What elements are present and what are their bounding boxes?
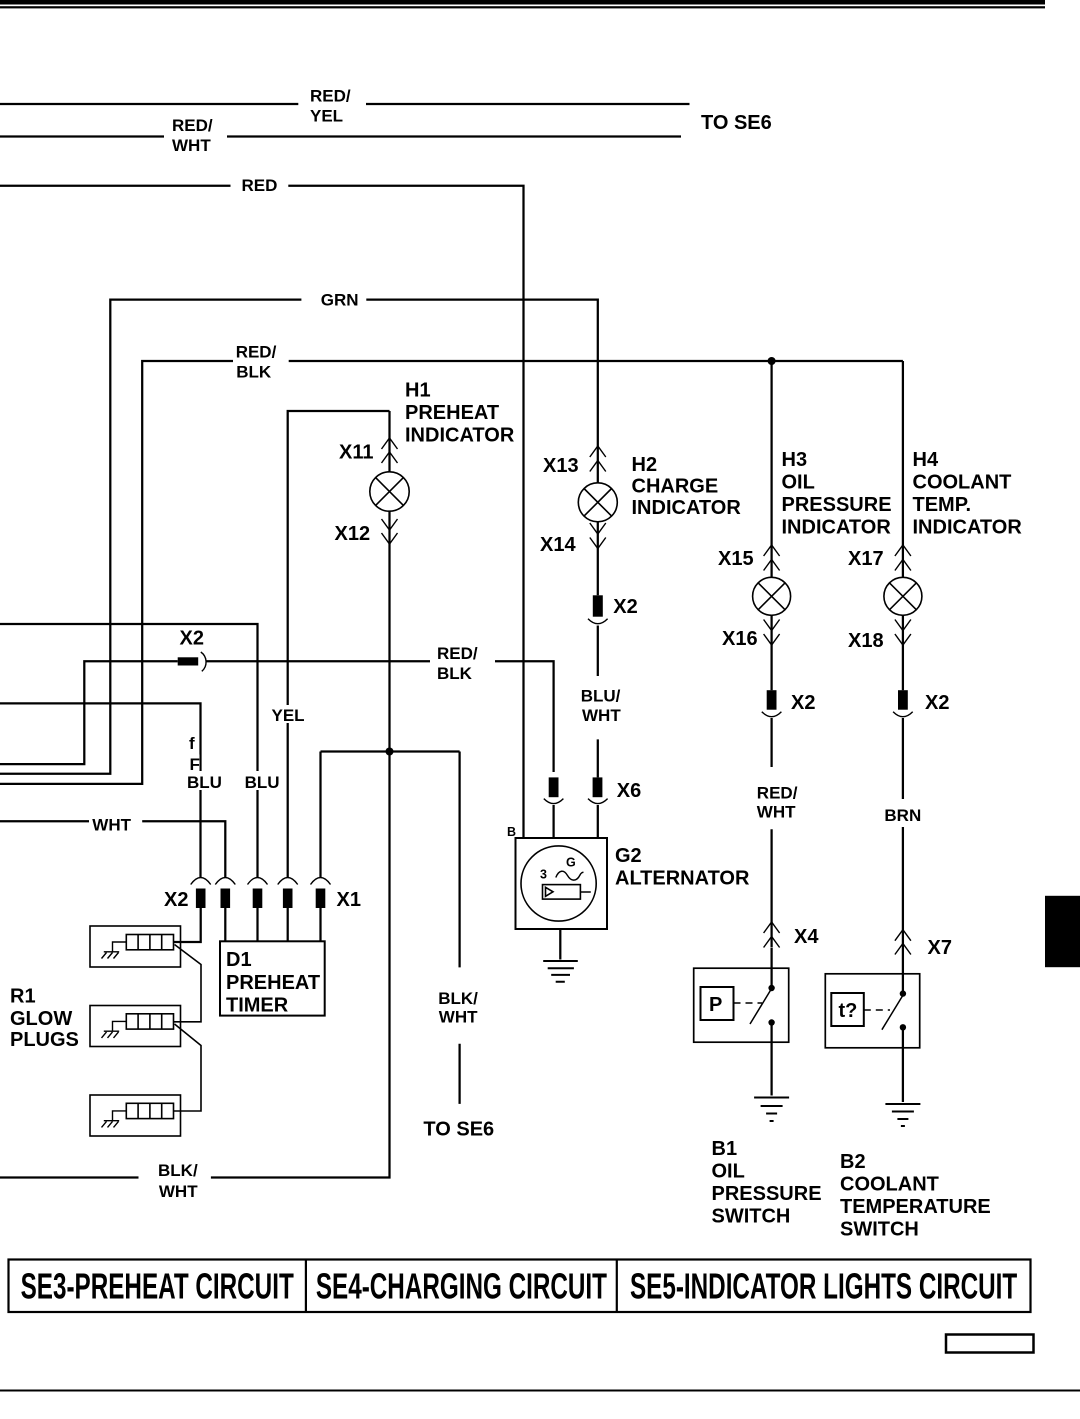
- lamp H4 coolant temp indicator: [884, 577, 922, 615]
- wire RED/WHT (to SE6): [0, 135, 681, 137]
- glow plug R1 box 2: [90, 1006, 181, 1047]
- glow plug R1 box 1: [90, 926, 181, 967]
- svg-text:PRESSURE: PRESSURE: [782, 494, 892, 516]
- alternator sine symbol: [556, 871, 584, 880]
- svg-text:SE5-INDICATOR LIGHTS CIRCUIT: SE5-INDICATOR LIGHTS CIRCUIT: [630, 1266, 1017, 1307]
- svg-text:SE4-CHARGING CIRCUIT: SE4-CHARGING CIRCUIT: [316, 1266, 607, 1307]
- wire RED (to alternator B terminal): [0, 186, 524, 838]
- glow plug 3 element: [126, 1103, 173, 1118]
- label X4: [794, 926, 819, 948]
- label wire BLK/WHT (SE6 drop): [438, 989, 478, 1026]
- glow plug 2 ground: [102, 1021, 127, 1038]
- wire RED/BLK to alternator: [206, 661, 554, 772]
- junction dot RED/BLK to H3: [768, 357, 776, 365]
- page top border thick rule: [0, 0, 1045, 5]
- svg-text:WHT: WHT: [439, 1007, 478, 1026]
- svg-text:BLK/: BLK/: [438, 989, 478, 1008]
- label X2 (H3 connector): [791, 692, 815, 714]
- label X2 (pin row): [164, 889, 188, 911]
- wire BLU/WHT to X6: [597, 626, 599, 778]
- connector X13 chevrons: [590, 446, 606, 472]
- label D1 PREHEAT TIMER: [226, 949, 320, 1017]
- svg-text:TO SE6: TO SE6: [701, 112, 772, 134]
- wire WHT to pin2: [0, 821, 225, 877]
- wire RED/YEL (to SE6): [0, 103, 690, 105]
- svg-text:BLK: BLK: [236, 363, 272, 382]
- svg-text:X2: X2: [180, 628, 204, 650]
- switch B1 upper contact: [768, 985, 774, 991]
- connector X2 pin (H2): [593, 595, 603, 616]
- connector pin row pins X2/X1: [196, 889, 325, 909]
- svg-text:X2: X2: [164, 889, 188, 911]
- svg-text:WHT: WHT: [172, 136, 211, 155]
- alternator rectifier box: [543, 885, 591, 900]
- connector pin row arcs: [191, 878, 331, 885]
- label table SE5-INDICATOR LIGHTS CIRCUIT: [630, 1266, 1017, 1307]
- svg-text:CHARGE: CHARGE: [632, 476, 719, 498]
- svg-text:ALTERNATOR: ALTERNATOR: [615, 868, 750, 890]
- wire RED/BLK (left edge to H3/H4 indicators): [0, 361, 903, 784]
- label X7: [928, 937, 952, 959]
- wire H1 top loop (lamp to YEL pin): [288, 411, 390, 877]
- connector X2 pin (H3): [767, 690, 777, 710]
- alternator G2 circle: [521, 846, 596, 921]
- connector X6 pin (right): [593, 777, 603, 797]
- label X13: [543, 455, 579, 477]
- svg-text:X12: X12: [335, 523, 371, 545]
- lamp H3 oil pressure indicator: [753, 577, 791, 615]
- label B1 OIL PRESSURE SWITCH: [712, 1138, 822, 1228]
- wire X7 into switch B2: [902, 955, 904, 992]
- svg-text:BLU/: BLU/: [581, 687, 621, 706]
- glow plug 1 element: [126, 935, 173, 950]
- wire pin2 to D1: [224, 908, 226, 941]
- svg-text:INDICATOR: INDICATOR: [913, 517, 1023, 539]
- label wire f F BLU (pin1): [183, 734, 222, 792]
- connector X7 chevrons: [895, 930, 911, 955]
- switch B1 P box: [701, 987, 734, 1020]
- svg-text:X17: X17: [848, 548, 884, 570]
- svg-text:X18: X18: [848, 630, 884, 652]
- svg-text:SWITCH: SWITCH: [840, 1219, 919, 1241]
- label H4 COOLANT TEMP INDICATOR: [913, 449, 1023, 539]
- ground G2: [543, 961, 578, 982]
- svg-text:PLUGS: PLUGS: [10, 1029, 79, 1051]
- label G2 ALTERNATOR: [615, 845, 750, 890]
- svg-text:PRESSURE: PRESSURE: [712, 1183, 822, 1205]
- glow plug 1 ground: [102, 942, 127, 959]
- label wire RED: [242, 176, 278, 195]
- connector X17 chevrons: [895, 545, 911, 571]
- svg-text:t?: t?: [839, 1000, 858, 1022]
- label wire BLK/WHT (bottom left): [158, 1161, 198, 1201]
- svg-text:H1: H1: [405, 380, 431, 402]
- label TO SE6 (bottom): [423, 1118, 494, 1140]
- label switch t: [839, 1000, 858, 1022]
- svg-text:WHT: WHT: [582, 706, 621, 725]
- connector X16 chevrons: [764, 620, 780, 646]
- connector X18 chevrons: [895, 620, 911, 646]
- wire to pin3 (BLU): [0, 624, 258, 877]
- label X17: [848, 548, 884, 570]
- wire BRN to X7: [902, 718, 904, 955]
- svg-text:P: P: [709, 994, 722, 1016]
- svg-text:X14: X14: [540, 534, 576, 556]
- table SE3/SE4/SE5: [9, 1260, 1031, 1313]
- wire H4 feed drop: [902, 361, 904, 577]
- wire junction to X1 pin and SE6 drop: [321, 752, 460, 878]
- svg-text:BLU: BLU: [187, 773, 222, 792]
- svg-text:X1: X1: [337, 889, 361, 911]
- connector X11 chevrons: [382, 438, 398, 463]
- label X14: [540, 534, 576, 556]
- svg-text:X6: X6: [617, 780, 641, 802]
- svg-text:B1: B1: [712, 1138, 738, 1160]
- label wire RED/BLK (center): [437, 644, 478, 683]
- label wire RED/BLK (left): [236, 343, 277, 382]
- svg-text:X7: X7: [928, 937, 952, 959]
- svg-text:BRN: BRN: [884, 806, 921, 825]
- wire H3 feed drop: [770, 361, 772, 577]
- wire battery feed staircase to inline X2: [0, 661, 178, 764]
- svg-text:RED/: RED/: [437, 644, 478, 663]
- svg-text:BLU: BLU: [245, 773, 280, 792]
- connector X6 socket arc (left): [544, 799, 564, 804]
- switch B1 lower contact: [768, 1019, 774, 1025]
- svg-text:G2: G2: [615, 845, 642, 867]
- svg-text:SE3-PREHEAT CIRCUIT: SE3-PREHEAT CIRCUIT: [21, 1266, 294, 1307]
- wire pin4 to D1: [287, 908, 289, 941]
- wire H1 lamp upper lead: [388, 411, 390, 472]
- label B2 COOLANT TEMPERATURE SWITCH: [840, 1151, 991, 1241]
- label X18: [848, 630, 884, 652]
- svg-text:PREHEAT: PREHEAT: [405, 402, 499, 424]
- switch B2 dashed link: [864, 1009, 890, 1011]
- label alternator 3: [540, 868, 547, 882]
- label X1 (pin row): [337, 889, 361, 911]
- svg-text:TEMPERATURE: TEMPERATURE: [840, 1196, 991, 1218]
- svg-text:H3: H3: [782, 449, 808, 471]
- wire BLK/WHT drop to SE6: [458, 752, 460, 1104]
- switch B2 lever: [882, 993, 904, 1030]
- svg-text:YEL: YEL: [310, 107, 343, 126]
- label wire GRN: [321, 291, 359, 310]
- label terminal B: [507, 825, 516, 839]
- svg-text:RED/: RED/: [236, 343, 277, 362]
- svg-text:B: B: [507, 825, 516, 839]
- ground B1: [754, 1098, 789, 1122]
- connector X2 inline pin: [178, 657, 199, 665]
- svg-text:X2: X2: [791, 692, 815, 714]
- svg-text:GRN: GRN: [321, 291, 359, 310]
- svg-text:TEMP.: TEMP.: [913, 494, 972, 516]
- wire X4 into switch B1: [770, 948, 772, 987]
- label table SE3-PREHEAT CIRCUIT: [21, 1266, 294, 1307]
- svg-text:R1: R1: [10, 986, 36, 1008]
- connector X4 chevrons: [764, 922, 780, 948]
- label H3 OIL PRESSURE INDICATOR: [782, 449, 892, 539]
- wire to pin1 (f F BLU): [0, 703, 201, 877]
- switch B1 lever: [750, 987, 773, 1024]
- wire H3 lamp to X2: [770, 615, 772, 690]
- label X2 (H2 connector): [613, 596, 637, 618]
- connector X2 socket arc (H3): [762, 712, 782, 717]
- svg-text:COOLANT: COOLANT: [840, 1174, 939, 1196]
- connector X12 chevrons: [382, 519, 398, 544]
- svg-text:WHT: WHT: [92, 816, 131, 835]
- connector X2 socket arc (H4): [893, 712, 913, 717]
- svg-text:INDICATOR: INDICATOR: [632, 497, 742, 519]
- label wire BRN: [884, 806, 921, 825]
- small empty box bottom right: [946, 1335, 1034, 1353]
- svg-text:TO SE6: TO SE6: [423, 1118, 494, 1140]
- svg-text:OIL: OIL: [712, 1161, 745, 1183]
- coolant temperature switch B2 box: [825, 974, 919, 1048]
- label H2 CHARGE INDICATOR: [632, 454, 742, 519]
- black edge tab: [1045, 896, 1080, 967]
- page top border thin rule: [0, 6, 1045, 8]
- label X16: [722, 628, 758, 650]
- wire alternator to ground: [559, 929, 561, 960]
- label X2 (inline connector): [180, 628, 204, 650]
- wire GRN (left edge to H2 charge indicator): [0, 300, 598, 774]
- svg-text:PREHEAT: PREHEAT: [226, 972, 320, 994]
- wire B1 to ground: [770, 1023, 772, 1096]
- svg-text:WHT: WHT: [757, 802, 796, 821]
- switch B1 dashed link: [734, 1002, 763, 1004]
- wire H4 lamp to X2: [902, 615, 904, 690]
- connector X6 pin (left): [549, 777, 559, 797]
- label R1 GLOW PLUGS: [10, 986, 79, 1052]
- label wire RED/WHT: [172, 116, 213, 155]
- svg-text:f: f: [189, 734, 195, 753]
- svg-text:X15: X15: [718, 548, 754, 570]
- label table SE4-CHARGING CIRCUIT: [316, 1266, 607, 1307]
- switch B2 lower contact: [900, 1024, 906, 1030]
- oil pressure switch B1 box: [694, 968, 789, 1042]
- label wire WHT: [92, 816, 131, 835]
- wire H1 lamp lower lead down to BLK/WHT: [0, 511, 390, 1177]
- connector X2 inline socket arc: [201, 652, 206, 671]
- svg-text:YEL: YEL: [272, 706, 305, 725]
- connector X2 socket arc (H2): [588, 619, 608, 624]
- wire pin1 to glow plug 1: [174, 908, 201, 942]
- label wire BLU (pin3): [241, 771, 280, 792]
- wire B2 to ground: [902, 1027, 904, 1102]
- label wire RED/WHT (B1 feed): [757, 784, 798, 822]
- glow plug R1 box 3: [90, 1095, 181, 1136]
- wire X6 to alternator: [597, 805, 599, 838]
- lamp H1 preheat indicator: [370, 472, 409, 511]
- wire pin3 to D1: [256, 908, 258, 941]
- svg-text:RED/: RED/: [172, 116, 213, 135]
- wire glow chain 1-2: [174, 945, 202, 1022]
- svg-text:H2: H2: [632, 454, 658, 476]
- junction dot H1 return: [386, 748, 394, 756]
- svg-text:X13: X13: [543, 455, 579, 477]
- svg-text:X4: X4: [794, 926, 819, 948]
- label X11: [339, 442, 373, 464]
- label wire BLU/WHT: [581, 687, 622, 725]
- svg-text:INDICATOR: INDICATOR: [782, 517, 892, 539]
- lamp H2 charge indicator: [578, 483, 617, 522]
- svg-text:TIMER: TIMER: [226, 995, 289, 1017]
- svg-text:3: 3: [540, 868, 547, 882]
- svg-text:OIL: OIL: [782, 472, 815, 494]
- svg-text:COOLANT: COOLANT: [913, 472, 1012, 494]
- glow plug 2 element: [126, 1014, 173, 1029]
- svg-text:RED: RED: [242, 176, 278, 195]
- wire left X6 to alternator: [552, 805, 554, 838]
- page bottom rule: [0, 1390, 1080, 1392]
- label TO SE6 (top): [701, 112, 772, 134]
- svg-text:GLOW: GLOW: [10, 1008, 72, 1030]
- label alternator G: [566, 856, 576, 870]
- switch B2 upper contact: [900, 990, 906, 996]
- svg-text:BLK/: BLK/: [158, 1161, 198, 1180]
- wire RED/WHT to X4: [770, 718, 772, 947]
- connector X14 chevrons: [590, 523, 606, 549]
- svg-text:X2: X2: [925, 692, 949, 714]
- svg-text:INDICATOR: INDICATOR: [405, 425, 515, 447]
- preheat timer D1 box: [220, 941, 325, 1015]
- label switch P: [709, 994, 722, 1016]
- svg-text:G: G: [566, 856, 576, 870]
- label wire YEL: [268, 705, 305, 725]
- switch B2 t box: [831, 993, 864, 1026]
- svg-text:X11: X11: [339, 442, 373, 464]
- svg-text:WHT: WHT: [159, 1182, 198, 1201]
- svg-text:H4: H4: [913, 449, 939, 471]
- label connector X6: [617, 780, 641, 802]
- alternator G2 box: [516, 838, 608, 929]
- svg-text:X2: X2: [613, 596, 637, 618]
- label X2 (H4 connector): [925, 692, 949, 714]
- svg-text:B2: B2: [840, 1151, 866, 1173]
- svg-text:X16: X16: [722, 628, 758, 650]
- svg-text:D1: D1: [226, 949, 252, 971]
- glow plug 3 ground: [102, 1111, 127, 1128]
- svg-text:RED/: RED/: [757, 784, 798, 803]
- svg-text:BLK: BLK: [437, 664, 473, 683]
- connector X6 socket arc (right): [588, 799, 608, 804]
- label wire RED/YEL: [310, 87, 351, 126]
- connector X15 chevrons: [764, 545, 780, 571]
- wire pin5 to D1: [319, 908, 321, 941]
- ground B2: [885, 1104, 920, 1126]
- label X12: [335, 523, 371, 545]
- wire H2 lamp lower lead: [597, 522, 599, 596]
- svg-text:RED/: RED/: [310, 87, 351, 106]
- svg-text:SWITCH: SWITCH: [712, 1206, 791, 1228]
- wire glow chain 2-3: [174, 1024, 202, 1111]
- label X15: [718, 548, 754, 570]
- connector X2 pin (H4): [898, 690, 908, 710]
- label H1 PREHEAT INDICATOR: [405, 380, 515, 447]
